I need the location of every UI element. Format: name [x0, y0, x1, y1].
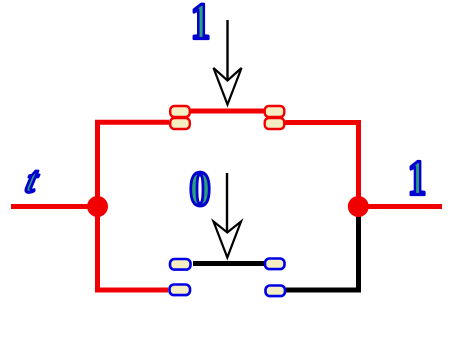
wire: input t horizontal [11, 204, 98, 209]
svg-text:1: 1 [191, 0, 211, 50]
svg-text:0: 0 [189, 161, 211, 216]
svg-text:t: t [22, 159, 44, 200]
label: control value 0 (bottom) [189, 161, 211, 216]
wire: output horizontal right [358, 204, 442, 209]
wire: switch S1 right to right vertical down to output node [286, 123, 359, 208]
wire: switch S2 bridge (black, floating) [193, 261, 264, 266]
wire: black from output node down to switch S2 right [286, 207, 359, 290]
wire: left vertical + top-left horizontal to switch S1 [98, 122, 170, 207]
wire: switch S1 closed bridge (red) [191, 109, 264, 114]
label: output value 1 (right) [408, 152, 427, 206]
label: input t [22, 159, 44, 200]
node: output junction [348, 196, 369, 217]
control arrow for S2: open arrowhead [214, 222, 242, 258]
node: input junction t [87, 196, 108, 217]
control arrow for S2: shaft [226, 173, 228, 231]
switch S1 terminal: left upper contact [170, 106, 190, 117]
control arrow for S1: shaft [226, 20, 228, 79]
wire: bottom-left vertical + horizontal to switch S2 [98, 207, 169, 290]
switch S2 terminal: left wire contact [170, 285, 191, 296]
switch S2 terminal: right wire contact [266, 286, 286, 297]
switch S1 terminal: left lower contact [170, 118, 190, 129]
switch S1 terminal: right lower contact [265, 118, 285, 129]
svg-text:1: 1 [408, 152, 427, 206]
switch S2 terminal: bridge right contact [265, 259, 285, 270]
switch S1 terminal: right upper contact [265, 106, 285, 117]
switch S2 terminal: bridge left contact [170, 259, 191, 270]
control arrow for S1: open arrowhead [214, 68, 242, 105]
label: control value 1 (top) [191, 0, 211, 50]
